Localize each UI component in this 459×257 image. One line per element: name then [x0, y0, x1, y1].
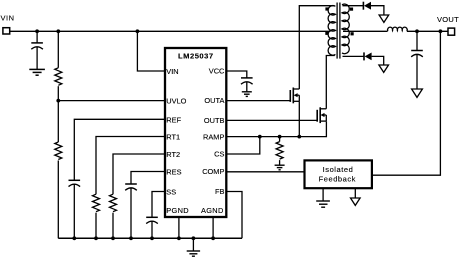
ground rail: [187, 251, 200, 256]
wire secondary tap: [343, 30, 387, 32]
wire bottom rail: [58, 237, 242, 239]
svg-text:VIN: VIN: [1, 14, 15, 23]
node FETsource junction: [297, 135, 301, 139]
svg-text:AGND: AGND: [201, 206, 224, 215]
capacitor C-res: [125, 183, 137, 185]
resistor R-T1: [93, 194, 100, 211]
svg-text:COMP: COMP: [202, 167, 224, 176]
resistor R-sense: [276, 142, 283, 159]
svg-text:SS: SS: [166, 188, 176, 197]
svg-text:VOUT: VOUT: [437, 15, 459, 24]
ground isolated D1: [379, 15, 389, 22]
svg-text:RAMP: RAMP: [203, 132, 224, 141]
svg-text:CS: CS: [214, 150, 224, 159]
svg-text:REF: REF: [166, 115, 181, 124]
capacitor C-in stub: [36, 31, 38, 42]
wire OUTA: [227, 100, 291, 102]
wire OUTB: [227, 119, 318, 121]
node VOUT terminal: [448, 28, 455, 35]
wire VCC: [227, 71, 247, 78]
wire R-T2 to rail: [112, 213, 114, 239]
capacitor C-out stub: [416, 31, 418, 50]
wire rail ground stub: [192, 238, 194, 250]
node VIN terminal: [3, 28, 10, 34]
op-amp U1 LM25037 box: [165, 48, 226, 217]
wire C-in to ground: [36, 47, 38, 69]
node UVLO junction: [56, 99, 60, 103]
resistor R-T2: [110, 194, 117, 211]
capacitor C-vcc: [241, 77, 253, 79]
node VOUT branch junction: [439, 29, 443, 33]
wire UVLO: [58, 100, 164, 102]
wire REF: [74, 119, 164, 180]
node rail-Cin junction: [35, 29, 39, 33]
wire C-ss to rail: [151, 221, 153, 238]
capacitor C-out: [411, 50, 423, 52]
inductor L1: [387, 27, 407, 31]
node rail-VINpin junction: [136, 29, 140, 33]
ground IF: [316, 201, 330, 207]
wire Q1 source: [298, 101, 300, 136]
transformer T1 primary: [328, 6, 335, 56]
svg-text:VCC: VCC: [209, 67, 225, 76]
svg-text:RT2: RT2: [166, 150, 180, 159]
transformer T1 secondary: [342, 4, 349, 54]
ground vcc: [242, 92, 252, 97]
wire SS: [152, 192, 165, 218]
capacitor C-in: [31, 42, 43, 44]
wire RT2: [113, 154, 165, 194]
wire D1 anode: [371, 6, 384, 15]
wire FB: [227, 192, 243, 239]
diode D2: [363, 52, 365, 60]
wire secondary top: [343, 5, 364, 7]
node CS-RAMP junction: [258, 135, 262, 139]
wire IF isolated ground stub: [354, 188, 356, 198]
svg-text:OUTA: OUTA: [204, 96, 224, 105]
wire R-T1 to rail: [95, 213, 97, 239]
wire secondary bottom: [343, 55, 365, 57]
wire divider middle: [57, 86, 59, 142]
node rail junctions: [72, 236, 215, 240]
wire Q2 drain: [326, 56, 335, 109]
wire RT1: [96, 137, 165, 195]
wire C-ref to rail: [73, 184, 75, 238]
svg-text:Feedback: Feedback: [319, 174, 356, 183]
ground sense: [275, 165, 285, 170]
capacitor C-ref: [69, 179, 81, 181]
wire RES: [131, 172, 165, 184]
transistor Q2: [317, 107, 326, 123]
wire L1 to VOUT: [407, 30, 448, 32]
wire VOUT down branch: [372, 31, 441, 175]
capacitor C-ss: [146, 216, 158, 218]
wire D2 anode: [372, 56, 384, 65]
node phase dot primary mid: [325, 32, 328, 35]
svg-text:FB: FB: [215, 187, 225, 196]
wire RAMP / CS net: [227, 121, 327, 136]
svg-text:OUTB: OUTB: [204, 116, 225, 125]
wire VIN pin drop: [137, 31, 164, 71]
node rail-divider junction: [56, 29, 60, 33]
svg-text:Isolated: Isolated: [323, 165, 354, 174]
ground isolated C-out: [412, 89, 423, 97]
wire Q1 drain: [299, 6, 334, 89]
svg-text:RES: RES: [166, 168, 181, 177]
transistor Q1: [290, 88, 299, 104]
op-amp U2 Isolated Feedback box: [305, 160, 372, 188]
ground isolated IF: [351, 198, 361, 205]
resistor R-sense stub: [279, 137, 281, 142]
wire C-out to ground: [416, 55, 418, 89]
svg-text:VIN: VIN: [166, 67, 178, 76]
wire top rail VIN: [10, 30, 331, 32]
ground input: [29, 69, 45, 75]
wire CS: [227, 137, 260, 154]
resistor R-uvlo-top: [55, 68, 62, 86]
transformer T1 core: [336, 3, 338, 59]
wire divider to rail: [57, 161, 59, 239]
svg-text:UVLO: UVLO: [166, 97, 186, 106]
wire AGND: [212, 217, 214, 238]
wire COMP: [227, 171, 305, 173]
node phase dot primary top: [325, 7, 328, 10]
node phase dot secondary top: [350, 8, 353, 11]
node Cout junction: [415, 29, 419, 33]
wire R-sense to ground: [279, 160, 281, 165]
svg-text:RT1: RT1: [166, 133, 180, 142]
wire PGND: [178, 217, 180, 238]
svg-text:LM25037: LM25037: [178, 52, 214, 61]
wire C-vcc to ground: [246, 82, 248, 91]
node phase dot secondary mid: [351, 32, 354, 35]
wire UVLO divider drop: [57, 31, 59, 68]
svg-text:PGND: PGND: [166, 206, 189, 215]
node sense junction: [278, 135, 282, 139]
wire C-res to rail: [130, 188, 132, 238]
wire IF ground stub: [322, 188, 324, 200]
resistor R-uvlo-bottom: [55, 142, 62, 159]
ground isolated D2: [379, 65, 389, 72]
diode D1: [362, 2, 364, 10]
